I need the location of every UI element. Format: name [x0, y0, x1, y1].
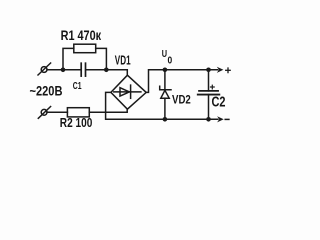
zener diode VD2: [160, 70, 171, 120]
arrow + output: [217, 67, 224, 73]
resistor R2: [67, 108, 89, 117]
terminal X1 (top AC input pin): [38, 63, 51, 75]
wire R2 to bridge bottom corner: [89, 109, 127, 112]
wire node B to bridge top corner: [106, 70, 127, 75]
svg-text:~220В: ~220В: [30, 83, 63, 98]
label - (minus terminal): [225, 118, 229, 120]
label U0 output voltage: [162, 49, 173, 66]
node D (C2 top junction): [206, 68, 211, 73]
label + (C2 polarity): [211, 85, 215, 89]
svg-text:С1: С1: [73, 80, 82, 92]
wire R1 left branch: [63, 48, 74, 69]
svg-text:R1 470к: R1 470к: [61, 28, 102, 43]
svg-text:VD2: VD2: [172, 93, 191, 107]
node F (C2 bottom junction): [206, 117, 211, 122]
label + (plus terminal): [226, 68, 231, 73]
resistor R1: [74, 44, 96, 53]
node B (junction R1 right): [104, 68, 109, 73]
terminal X2 (bottom AC input pin): [38, 107, 50, 119]
node C (VD2 top junction): [163, 68, 168, 73]
arrow - output: [217, 116, 224, 122]
node A (junction C1/R1 left): [61, 68, 66, 73]
node E (VD2 bottom junction): [163, 117, 168, 122]
wire node A to C1: [63, 69, 80, 71]
wire bridge left corner to - rail: [106, 92, 218, 119]
wire C1 to node B: [86, 69, 106, 71]
bridge rectifier VD1: [111, 75, 146, 109]
wire top terminal to node A: [47, 69, 63, 71]
capacitor C2: [198, 70, 220, 120]
svg-text:R2 100: R2 100: [60, 115, 93, 130]
svg-text:0: 0: [168, 55, 173, 67]
svg-text:U: U: [162, 49, 167, 60]
capacitor C1: [81, 63, 85, 76]
svg-text:С2: С2: [212, 94, 226, 110]
wire bridge right corner riser to + rail: [146, 70, 217, 93]
wire R1 right branch: [96, 48, 107, 69]
wire bottom terminal to R2: [47, 111, 67, 113]
svg-text:VD1: VD1: [115, 52, 131, 67]
